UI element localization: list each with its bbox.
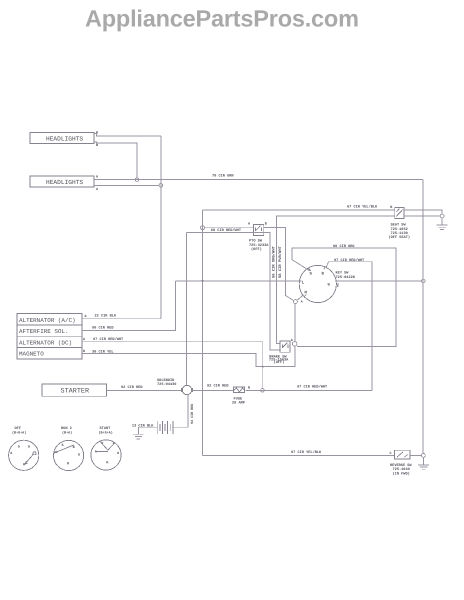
fuse F1 — [232, 386, 250, 406]
svg-text:94 CIR RED: 94 CIR RED — [190, 404, 195, 424]
svg-text:M: M — [67, 462, 69, 467]
svg-text:A: A — [248, 221, 251, 226]
svg-text:B: B — [390, 205, 392, 210]
wire solenoid to battery riser — [173, 395, 188, 428]
svg-text:B: B — [96, 143, 98, 148]
svg-text:56 CIR ORG/WHT: 56 CIR ORG/WHT — [272, 245, 277, 278]
svg-text:97 CIR RED/WHT: 97 CIR RED/WHT — [93, 337, 124, 342]
ground seat — [437, 218, 448, 230]
svg-text:97 CIR YEL/BLK: 97 CIR YEL/BLK — [291, 450, 322, 455]
wire H1 pin B bottom — [94, 142, 137, 178]
svg-text:(OFF SEAT): (OFF SEAT) — [389, 235, 411, 240]
ignition position START detail — [91, 426, 121, 470]
node junction headlight B to green line — [135, 178, 139, 182]
svg-text:97 CIR RED/WHT: 97 CIR RED/WHT — [297, 385, 328, 390]
svg-text:M: M — [106, 461, 108, 466]
wire seat switch left branch to brake switch — [276, 216, 394, 343]
svg-text:97 CIR RED/WHT: 97 CIR RED/WHT — [334, 258, 365, 263]
key switch U1 — [299, 265, 355, 303]
wire starter to solenoid — [107, 389, 183, 391]
svg-text:S: S — [18, 444, 20, 449]
svg-text:A: A — [301, 299, 303, 303]
svg-text:G: G — [78, 453, 80, 458]
brake switch SW3 — [269, 338, 294, 365]
svg-text:B: B — [322, 272, 325, 277]
node junction at seat ground — [440, 214, 444, 218]
svg-text:B: B — [265, 221, 267, 226]
headlight H1 box — [30, 131, 98, 149]
svg-text:M: M — [23, 462, 25, 467]
wire PTO B to key M connector — [264, 227, 294, 300]
wire vertical bus headlights to alternator row1 — [160, 136, 162, 319]
ground reverse — [418, 457, 429, 469]
wire 22 CIR BLK row1 — [82, 318, 161, 320]
node connector brake to key M — [293, 342, 297, 346]
svg-text:(OFF): (OFF) — [274, 360, 285, 365]
wire seat switch feed line — [203, 209, 395, 211]
ignition position RUN 2 detail — [54, 426, 84, 470]
svg-text:A: A — [96, 175, 99, 180]
wire brake loop — [82, 346, 295, 367]
wire key G to right bus — [336, 280, 421, 282]
svg-text:(B+G+A): (B+G+A) — [12, 430, 26, 435]
PTO switch SW1 — [248, 221, 269, 252]
wire seat switch top pin loop — [404, 210, 442, 214]
svg-text:HEADLIGHTS: HEADLIGHTS — [46, 179, 83, 186]
wire seat/interlock vertical bus — [202, 210, 204, 456]
svg-text:(IN FWD): (IN FWD) — [393, 471, 410, 476]
wire seat switch to ground — [404, 215, 440, 217]
wire 97 CIR RED/WHT row3 — [82, 342, 263, 389]
svg-text:G: G — [85, 314, 87, 319]
wire H1 pin B top to vertical bus — [94, 134, 161, 136]
svg-text:92 CIR RED: 92 CIR RED — [121, 385, 143, 390]
wire H2 pin A bottom to junction — [94, 184, 159, 186]
svg-text:92 CIR RED: 92 CIR RED — [207, 384, 229, 389]
svg-text:ALTERNATOR (DC): ALTERNATOR (DC) — [19, 339, 72, 346]
wire battery negative — [138, 426, 157, 428]
node junction on headlight bus — [159, 184, 163, 188]
svg-text:A: A — [95, 450, 98, 455]
svg-text:AFTERFIRE SOL.: AFTERFIRE SOL. — [19, 328, 69, 335]
svg-text:G: G — [117, 451, 119, 456]
wire bottom 97 CIR YEL/BLK — [203, 454, 395, 456]
node connector A below key M — [293, 300, 297, 304]
reverse switch SW4 — [390, 450, 413, 476]
svg-text:58 CIR PUR/WHT: 58 CIR PUR/WHT — [278, 245, 283, 278]
svg-text:KEY SW: KEY SW — [336, 271, 350, 276]
node junction alternator DC feed — [261, 389, 265, 393]
headlight H2 box — [30, 175, 99, 193]
svg-text:STARTER: STARTER — [61, 388, 90, 396]
ignition position OFF detail — [9, 426, 39, 470]
wire 90 CIR RED row2 — [82, 281, 176, 331]
svg-text:20 AMP: 20 AMP — [232, 401, 245, 406]
svg-text:13 CIR BLK: 13 CIR BLK — [132, 423, 154, 428]
svg-text:L: L — [302, 281, 305, 286]
wire key M to connector — [297, 295, 304, 301]
svg-text:ALTERNATOR (A/C): ALTERNATOR (A/C) — [19, 317, 76, 324]
wire key L line — [176, 280, 300, 282]
wire 97 CIR RED/WHT from key B — [326, 262, 372, 391]
wire fuse to key B riser — [246, 389, 372, 391]
battery BT1 — [157, 421, 173, 434]
svg-text:(B+S+A): (B+S+A) — [99, 430, 113, 435]
seat switch SW2 — [389, 205, 411, 240]
svg-text:725-04228: 725-04228 — [336, 275, 355, 280]
svg-text:AppliancePartsPros.com: AppliancePartsPros.com — [85, 6, 359, 32]
wire PTO under-route from solenoid bus — [186, 233, 280, 350]
wire solenoid to fuse — [192, 389, 233, 391]
svg-text:G: G — [28, 445, 30, 450]
svg-text:67 CIR YEL/BLK: 67 CIR YEL/BLK — [347, 204, 378, 209]
alternator block — [17, 314, 82, 360]
svg-text:(OFF): (OFF) — [251, 247, 262, 252]
ground battery — [133, 427, 144, 439]
svg-text:70 CIR GRN: 70 CIR GRN — [212, 174, 234, 179]
wire 66 CIR ORG from key S — [292, 248, 396, 347]
svg-text:A: A — [96, 187, 99, 192]
solenoid K1 — [157, 378, 192, 395]
svg-text:D: D — [83, 349, 85, 354]
svg-text:G: G — [328, 283, 331, 288]
node dot L line on interlock bus — [202, 280, 204, 282]
node junction GO circuit — [201, 226, 205, 230]
node junction reverse to ground — [422, 454, 426, 458]
svg-text:90 CIR RED: 90 CIR RED — [92, 325, 114, 330]
svg-text:HEADLIGHTS: HEADLIGHTS — [46, 136, 83, 143]
wire GO CIR RED/WHT to PTO switch — [205, 227, 254, 229]
svg-text:A: A — [10, 451, 13, 456]
starter box — [42, 384, 107, 396]
wire right green bus down — [422, 180, 424, 454]
wire connector down to brake switch — [294, 304, 296, 342]
svg-text:725-04439: 725-04439 — [157, 382, 176, 387]
svg-text:22 CIR BLK: 22 CIR BLK — [95, 314, 117, 319]
svg-text:C: C — [337, 284, 339, 288]
svg-text:S: S — [310, 272, 313, 277]
svg-text:(B+A): (B+A) — [62, 430, 72, 435]
svg-text:30 CIR YEL: 30 CIR YEL — [92, 350, 114, 355]
wire solenoid bus vertical — [185, 233, 187, 386]
svg-text:C: C — [390, 451, 392, 456]
node dot loop crossing — [262, 366, 264, 368]
svg-text:SOLENOID: SOLENOID — [157, 378, 175, 383]
wire 70 CIR GRN long line — [94, 179, 423, 181]
svg-text:MAGNETO: MAGNETO — [19, 351, 44, 358]
svg-text:66 CIR ORG: 66 CIR ORG — [333, 244, 355, 249]
node junction key G at green bus — [421, 279, 425, 283]
svg-text:S: S — [62, 443, 64, 448]
